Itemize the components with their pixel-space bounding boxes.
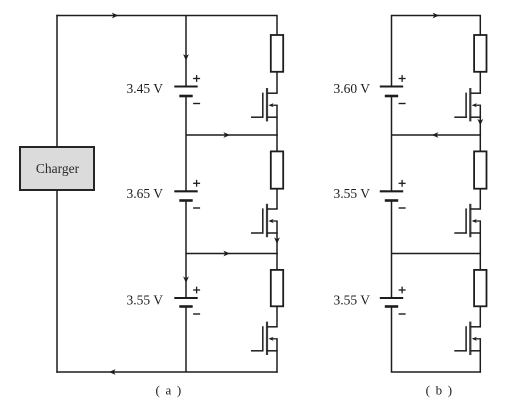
wire: node rail between cell 1 and cell 2 (b) xyxy=(392,134,482,136)
wire: battery column, cell 3 to bottom rail (b) xyxy=(391,307,393,373)
wire: resistor R6 to drain of Q6 (b) xyxy=(479,306,481,327)
current arrow down into cell 3 (a) xyxy=(183,276,189,283)
wire: battery column, cell 2 to cell 3 (a) xyxy=(185,201,187,299)
transistor Q6 (b) (N-MOSFET) xyxy=(454,322,481,355)
battery cell B4 (3.60 V) xyxy=(380,87,403,97)
charger box xyxy=(20,147,94,190)
wire: rail 2 to resistor R3 (a) xyxy=(276,253,278,270)
wire: resistor R5 to drain of Q5 (b) xyxy=(479,189,481,209)
wire: top rail of circuit (a) xyxy=(56,15,277,17)
wire: rail 1 to resistor R2 (a) xyxy=(276,134,278,151)
wire: source of Q6 down to rail (b) xyxy=(479,339,481,373)
wire: charger top lead up to top rail xyxy=(56,15,58,147)
plus label of B5 (3.55 V) xyxy=(399,180,406,187)
minus label of B5 (3.55 V) xyxy=(399,207,406,209)
wire: battery column, cell 1 to cell 2 (a) xyxy=(185,96,187,191)
plus label of B6 (3.55 V) xyxy=(399,287,406,294)
resistor R3 (a) xyxy=(271,270,283,306)
plus label of B3 (3.55 V) xyxy=(193,287,200,294)
current arrow down into cell 1 (a) xyxy=(183,54,189,61)
wire: battery column, cell 2 to cell 3 (b) xyxy=(391,201,393,299)
current arrow right on rail 1 (a) xyxy=(223,132,230,138)
plus label of B1 (3.45 V) xyxy=(193,75,200,82)
wire: battery column, cell 3 to bottom rail (a) xyxy=(185,307,187,373)
current arrow down on source lead of Q2 (a) xyxy=(274,237,280,244)
wire: source of Q2 down to rail (a) xyxy=(276,221,278,254)
transistor Q3 (a) (N-MOSFET) xyxy=(251,322,278,355)
wire: rail 0 to resistor R1 (a) xyxy=(276,16,278,36)
current arrow down on source lead of Q4 (b) xyxy=(477,119,483,126)
plus label of B2 (3.65 V) xyxy=(193,180,200,187)
wire: resistor R4 to drain of Q4 (b) xyxy=(479,72,481,93)
svg-text:3.45 V: 3.45 V xyxy=(126,81,163,96)
current arrow right on top rail (a) xyxy=(112,13,119,19)
svg-text:3.60 V: 3.60 V xyxy=(333,81,370,96)
svg-text:( b ): ( b ) xyxy=(426,383,454,398)
svg-text:3.55 V: 3.55 V xyxy=(333,293,370,308)
wire: charger bottom lead down to bottom rail xyxy=(56,190,58,373)
svg-text:3.55 V: 3.55 V xyxy=(333,186,370,201)
resistor R6 (b) xyxy=(474,270,486,306)
wire: node rail between cell 2 and cell 3 (b) xyxy=(392,253,482,255)
current arrow left on bottom rail (a) xyxy=(109,369,116,375)
minus label of B1 (3.45 V) xyxy=(193,103,200,105)
wire: resistor R1 to drain of Q1 (a) xyxy=(276,72,278,93)
resistor R4 (b) xyxy=(474,35,486,72)
wire: node rail between cell 2 and cell 3 (a) xyxy=(186,253,278,255)
svg-text:( a ): ( a ) xyxy=(156,383,183,398)
minus label of B3 (3.55 V) xyxy=(193,313,200,315)
current arrow right on rail 2 (a) xyxy=(223,251,230,257)
resistor R5 (b) xyxy=(474,151,486,188)
wire: rail 0 to resistor R4 (b) xyxy=(479,16,481,36)
wire: node rail between cell 1 and cell 2 (a) xyxy=(186,134,278,136)
plus label of B4 (3.60 V) xyxy=(399,75,406,82)
minus label of B4 (3.60 V) xyxy=(399,103,406,105)
minus label of B2 (3.65 V) xyxy=(193,207,200,209)
transistor Q5 (b) (N-MOSFET) xyxy=(454,204,481,237)
wire: top rail of circuit (b) xyxy=(391,15,481,17)
wire: battery column, cell 1 to cell 2 (b) xyxy=(391,96,393,191)
wire: rail 1 to resistor R5 (b) xyxy=(479,134,481,151)
wire: source of Q1 down to rail (a) xyxy=(276,105,278,136)
minus label of B6 (3.55 V) xyxy=(399,313,406,315)
transistor Q1 (a) (N-MOSFET) xyxy=(251,88,278,121)
resistor R1 (a) xyxy=(271,35,283,72)
wire: battery column, top rail to cell 1 (b) xyxy=(391,16,393,87)
wire: source of Q3 down to rail (a) xyxy=(276,339,278,373)
wire: rail 2 to resistor R6 (b) xyxy=(479,253,481,270)
svg-text:3.55 V: 3.55 V xyxy=(126,293,163,308)
resistor R2 (a) xyxy=(271,151,283,188)
transistor Q4 (b) (N-MOSFET) xyxy=(454,88,481,121)
svg-text:Charger: Charger xyxy=(36,161,80,176)
transistor Q2 (a) (N-MOSFET) xyxy=(251,204,278,237)
battery cell B1 (3.45 V) xyxy=(174,87,197,97)
battery cell B6 (3.55 V) xyxy=(380,298,403,307)
current arrow left on rail 1 (b) xyxy=(432,132,439,138)
battery cell B5 (3.55 V) xyxy=(380,191,403,200)
wire: battery column, top rail to cell 1 (a) xyxy=(185,16,187,87)
battery cell B2 (3.65 V) xyxy=(174,191,197,200)
wire: bottom rail of circuit (a) xyxy=(56,371,277,373)
current arrow right on top rail (b) xyxy=(433,13,440,19)
wire: resistor R2 to drain of Q2 (a) xyxy=(276,189,278,209)
svg-text:3.65 V: 3.65 V xyxy=(126,186,163,201)
battery cell B3 (3.55 V) xyxy=(174,298,197,307)
wire: resistor R3 to drain of Q3 (a) xyxy=(276,306,278,327)
wire: source of Q5 down to rail (b) xyxy=(479,221,481,254)
wire: source of Q4 down to rail (b) xyxy=(479,105,481,136)
wire: bottom rail of circuit (b) xyxy=(391,371,481,373)
